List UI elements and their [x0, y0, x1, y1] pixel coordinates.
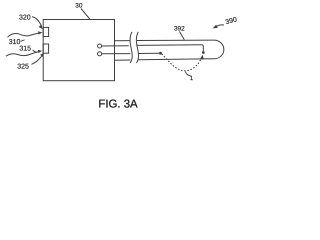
- svg-text:315: 315: [19, 45, 31, 52]
- device box 30: [43, 20, 114, 81]
- svg-text:320: 320: [19, 15, 31, 22]
- leader tail for 310: [21, 40, 25, 42]
- svg-text:325: 325: [17, 64, 29, 71]
- leader for 315 (wavy) with arrowhead: [6, 52, 39, 57]
- junction dot A: [159, 52, 162, 55]
- break symbol wave 1: [130, 32, 132, 63]
- terminal circle T2: [98, 52, 102, 56]
- wire: inner top feed line (left of break): [102, 45, 129, 47]
- port rect P1: [43, 27, 48, 36]
- svg-text:30: 30: [75, 3, 83, 10]
- leader for 310 (wavy) with arrowhead: [8, 33, 40, 37]
- leader for 30: [81, 9, 90, 20]
- loop rounded end cap 392: [214, 40, 224, 59]
- leader tail for 315: [33, 50, 37, 52]
- junction dot B: [202, 51, 205, 54]
- leader arrow for 390: [216, 25, 224, 27]
- leader for 392: [180, 32, 185, 40]
- wire: outer top line (right of break): [137, 39, 214, 41]
- current arc arrowhead (points up toward dot B): [200, 55, 204, 60]
- wire: inner top line (right of break) with corner down to feed gap: [136, 45, 203, 52]
- svg-text:390: 390: [225, 16, 238, 26]
- break symbol wave 2: [136, 32, 138, 63]
- terminal circle T1: [98, 44, 102, 48]
- current label 1 with hook leader: [185, 72, 190, 76]
- svg-text:FIG. 3A: FIG. 3A: [98, 98, 138, 110]
- wire: inner bottom feed line (left of break): [102, 53, 131, 55]
- wire: outer bottom line (right of break): [138, 58, 214, 61]
- wire: outer top line (left of break): [115, 40, 130, 42]
- port rect P2: [43, 44, 48, 53]
- svg-text:1: 1: [190, 75, 194, 82]
- leader for 320 with arrowhead: [32, 17, 42, 27]
- leader for 325 with arrowhead: [32, 56, 42, 64]
- wire: outer bottom line (left of break): [115, 59, 131, 61]
- current direction arc (dotted): [162, 54, 202, 71]
- wire: inner bottom line (right of break) ending at junction dot: [138, 52, 159, 54]
